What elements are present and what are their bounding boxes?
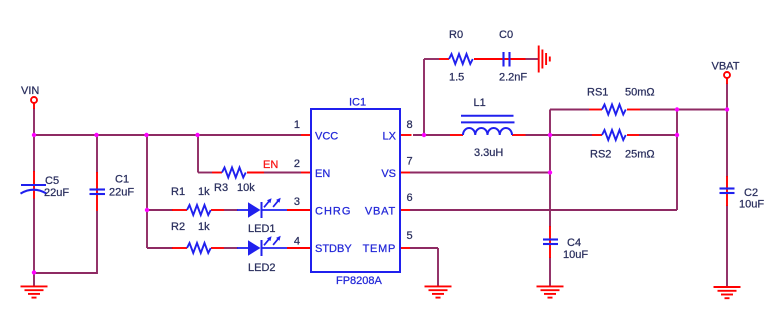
wire RS1 row right [640, 109, 727, 111]
wire snubber branch vertical [423, 59, 425, 135]
R3 right stub [247, 172, 264, 174]
wire R2 row left [147, 247, 173, 249]
capacitor C1 [90, 190, 106, 195]
svg-text:RS1: RS1 [587, 87, 608, 99]
svg-text:C0: C0 [499, 29, 513, 41]
node VS C4 [548, 170, 552, 174]
wire left vertical C5 lower [33, 198, 35, 273]
wire EN branch vertical [197, 135, 199, 173]
L1 left stub [450, 134, 463, 136]
svg-text:8: 8 [407, 119, 413, 131]
ground GND3 C4 [537, 286, 564, 297]
wire C1 branch lower [96, 211, 98, 274]
pin 2 stub [301, 172, 311, 174]
resistor RS1 [602, 105, 626, 115]
pin 6 stub [400, 209, 410, 211]
svg-text:VCC: VCC [315, 131, 338, 143]
svg-text:6: 6 [407, 192, 413, 204]
L1 right stub [512, 134, 526, 136]
wire C1 branch upper [96, 135, 98, 173]
svg-text:1.5: 1.5 [449, 72, 464, 84]
svg-text:R3: R3 [214, 182, 228, 194]
ground GND2 TEMP [425, 286, 452, 297]
wire TEMP ground vertical [437, 248, 439, 286]
node ground bus [32, 270, 36, 274]
pin 4 stub [287, 247, 311, 249]
svg-text:C4: C4 [567, 237, 581, 249]
svg-text:22uF: 22uF [109, 187, 134, 199]
svg-text:RS2: RS2 [590, 149, 611, 161]
svg-text:LED1: LED1 [248, 223, 276, 235]
R0 C0 stub through plates [474, 58, 526, 60]
wire R1 row left [147, 209, 173, 211]
wire R1 row right [224, 209, 238, 211]
svg-text:C5: C5 [45, 175, 59, 187]
svg-text:10k: 10k [237, 182, 255, 194]
pin 3 stub [287, 209, 311, 211]
wire C0 to ground [525, 58, 539, 60]
op-amp U1 IC body FP8208A [311, 109, 400, 272]
node EN tap [195, 133, 199, 137]
svg-text:10uF: 10uF [563, 249, 588, 261]
svg-text:C1: C1 [115, 174, 129, 186]
svg-text:STDBY: STDBY [315, 243, 352, 255]
svg-text:50mΩ: 50mΩ [625, 87, 655, 99]
svg-text:VS: VS [381, 168, 396, 180]
node R1R2 tap [144, 133, 148, 137]
terminal VIN [31, 97, 37, 103]
resistor R0 [449, 54, 473, 64]
wire EN row right [264, 172, 301, 174]
svg-text:5: 5 [407, 230, 413, 242]
wire VS row [410, 172, 550, 174]
resistor R2 [187, 243, 211, 253]
wire VBAT terminal vertical lower [726, 205, 728, 287]
ground GND5 rotated snubber [539, 46, 550, 73]
node R1 tap [145, 208, 149, 212]
svg-text:1: 1 [294, 119, 300, 131]
svg-text:R2: R2 [171, 221, 185, 233]
wire VBAT pin row [410, 209, 677, 211]
wire bottom ground bus [34, 272, 97, 274]
node C1 tap [94, 133, 98, 137]
wire left vertical C5 upper [33, 135, 35, 172]
wire ground stub bottom left [33, 273, 35, 286]
RS1 left stub [589, 109, 602, 111]
pin 8 stub [400, 134, 412, 136]
R2 right stub [211, 247, 224, 249]
svg-text:2.2nF: 2.2nF [499, 72, 527, 84]
wire RS node vertical [549, 110, 551, 173]
resistor R3 [222, 168, 246, 178]
pin 5 stub [400, 247, 410, 249]
svg-text:10uF: 10uF [739, 199, 764, 211]
svg-text:4: 4 [294, 236, 300, 248]
wire R1 R2 branch vertical [146, 135, 148, 248]
svg-text:EN: EN [263, 159, 278, 171]
pin 1 stub [301, 134, 311, 136]
capacitor C4 [543, 240, 558, 245]
svg-text:CHRG: CHRG [315, 206, 351, 218]
node VIN bus [32, 133, 36, 137]
svg-text:L1: L1 [474, 97, 486, 109]
svg-text:R0: R0 [449, 29, 463, 41]
pin 7 stub [400, 172, 410, 174]
wire main VIN bus [34, 134, 301, 136]
C5 pin stub [33, 171, 35, 199]
wire RS2 row right [639, 134, 677, 136]
terminal VBAT [724, 72, 730, 78]
R3 left stub [212, 172, 222, 174]
wire VBAT terminal vertical upper [726, 83, 728, 177]
svg-text:FP8208A: FP8208A [336, 275, 383, 287]
RS2 left stub [592, 134, 602, 136]
wire RS1 row left [550, 109, 589, 111]
C2 pin stub [726, 176, 728, 206]
svg-text:C2: C2 [744, 187, 758, 199]
wire EN row left [198, 172, 212, 174]
node snubber tap [422, 133, 426, 137]
VBAT terminal stub [726, 78, 728, 84]
wire C4 branch upper [549, 173, 551, 228]
ground GND1 bottom left [21, 286, 48, 297]
ground GND4 C2 VBAT [714, 287, 741, 298]
resistor RS2 [602, 130, 626, 140]
capacitor C0 [504, 52, 510, 67]
svg-text:1k: 1k [198, 221, 210, 233]
node VBAT RS1 [725, 107, 729, 111]
wire VIN vertical [33, 108, 35, 135]
svg-text:22uF: 22uF [44, 187, 69, 199]
R1 left stub [172, 209, 187, 211]
svg-text:3: 3 [294, 196, 300, 208]
wire VBAT row to RS vertical [676, 110, 678, 211]
wire C4 branch lower [549, 257, 551, 286]
svg-text:VIN: VIN [21, 85, 39, 97]
resistor R1 [187, 205, 211, 215]
inductor L1 [461, 116, 515, 135]
node junction dots [32, 107, 729, 274]
svg-text:VBAT: VBAT [712, 61, 740, 73]
RS1 right stub [627, 109, 640, 111]
C4 pin stub [549, 226, 551, 258]
svg-text:EN: EN [315, 168, 330, 180]
VIN terminal stub [33, 103, 35, 109]
svg-text:1k: 1k [198, 186, 210, 198]
diode LED2 [237, 236, 287, 256]
wire R2 row right [224, 247, 238, 249]
svg-text:VBAT: VBAT [365, 206, 396, 218]
R1 right stub [211, 209, 224, 211]
node LX RS [548, 133, 552, 137]
node RS2 right [675, 133, 679, 137]
svg-text:TEMP: TEMP [363, 243, 396, 255]
capacitor C5 [21, 185, 47, 194]
svg-text:LX: LX [383, 131, 397, 143]
svg-text:25mΩ: 25mΩ [625, 149, 655, 161]
wire TEMP row [410, 247, 438, 249]
C1 pin stub [96, 172, 98, 211]
R0 left stub [439, 58, 449, 60]
R2 left stub [172, 247, 187, 249]
svg-text:2: 2 [294, 158, 300, 170]
svg-text:7: 7 [407, 156, 413, 168]
RS2 right stub [627, 134, 639, 136]
wire L1 to RS2 node [526, 134, 593, 136]
svg-text:3.3uH: 3.3uH [474, 147, 503, 159]
svg-text:IC1: IC1 [349, 97, 366, 109]
wire snubber row left [424, 58, 439, 60]
svg-text:LED2: LED2 [248, 262, 276, 274]
diode LED1 [237, 198, 287, 218]
svg-text:R1: R1 [171, 186, 185, 198]
wire LX row dark segment [413, 134, 450, 136]
node RS1 right [675, 107, 679, 111]
capacitor C2 [720, 189, 735, 194]
